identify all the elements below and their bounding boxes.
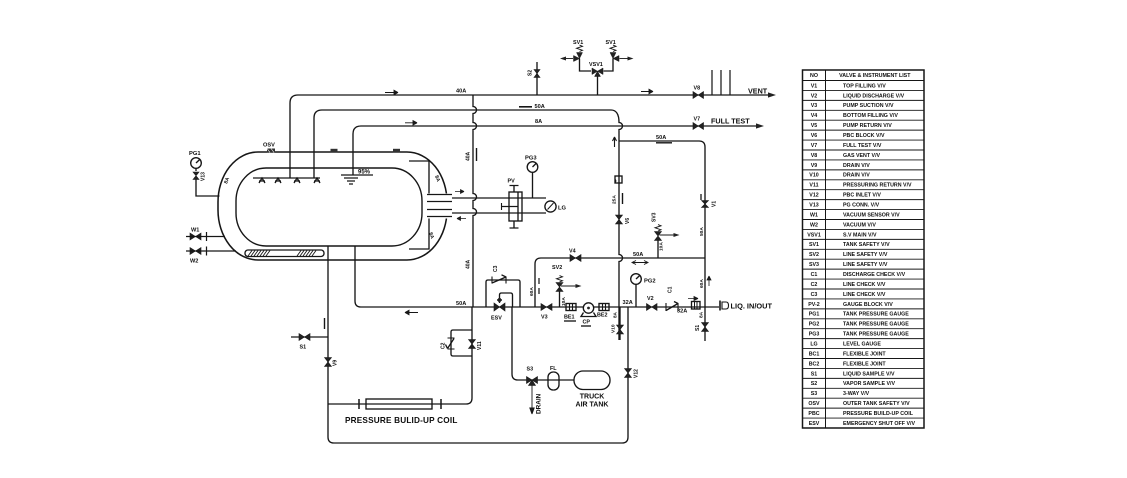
TRUCK AIR TANK label	[576, 394, 609, 409]
svg-text:W2: W2	[810, 222, 818, 228]
svg-text:SV3: SV3	[652, 212, 658, 222]
svg-text:GAUGE BLOCK V/V: GAUGE BLOCK V/V	[843, 302, 893, 308]
flexible joint BC3 hose	[692, 302, 701, 310]
valve V11	[469, 340, 476, 349]
svg-text:VSV1: VSV1	[807, 232, 821, 238]
svg-text:NO: NO	[810, 73, 818, 79]
svg-text:PBC: PBC	[808, 411, 819, 417]
svg-text:V1: V1	[712, 201, 718, 207]
valve V12	[625, 369, 632, 378]
coil tick left	[358, 399, 360, 409]
svg-text:25A: 25A	[612, 195, 618, 204]
svg-text:50A: 50A	[656, 135, 666, 141]
svg-text:OSV: OSV	[808, 401, 820, 407]
svg-text:TANK PRESSURE GAUGE: TANK PRESSURE GAUGE	[843, 332, 909, 338]
svg-text:PUMP RETURN V/V: PUMP RETURN V/V	[843, 123, 892, 129]
svg-text:60A: 60A	[699, 279, 705, 288]
svg-text:S2: S2	[528, 70, 534, 76]
bus2 descender flow tick	[613, 137, 617, 147]
pipe 40A vertical drop	[473, 95, 477, 307]
safety valve SV3	[655, 225, 680, 258]
valve V8	[693, 92, 704, 99]
svg-text:TOP FILLING V/V: TOP FILLING V/V	[843, 83, 886, 89]
svg-text:FULL TEST: FULL TEST	[711, 117, 750, 126]
svg-text:V12: V12	[634, 369, 640, 378]
valve & instrument list table	[803, 70, 925, 428]
main line arrow right	[688, 297, 698, 301]
W1 tick	[206, 232, 208, 241]
3-way valve VSV1	[592, 68, 603, 95]
truck air tank vessel	[574, 371, 610, 390]
valve V1	[702, 201, 709, 208]
outlet upper arrow	[455, 190, 464, 194]
valve V7	[693, 123, 704, 130]
svg-text:C1: C1	[811, 272, 818, 278]
full test arrowhead	[756, 123, 764, 128]
svg-text:PRESSURE BUILD-UP COIL: PRESSURE BUILD-UP COIL	[843, 411, 914, 417]
valve V2	[647, 304, 658, 311]
gauge block PV-2	[502, 186, 523, 229]
svg-text:W2: W2	[190, 259, 198, 265]
svg-text:LIQUID DISCHARGE V/V: LIQUID DISCHARGE V/V	[843, 93, 905, 99]
PG1 connection pipe	[196, 180, 220, 197]
svg-text:EMERGENCY SHUT OFF V/V: EMERGENCY SHUT OFF V/V	[843, 421, 915, 427]
svg-text:DRAIN: DRAIN	[536, 393, 543, 414]
coil tick right	[440, 399, 442, 409]
svg-text:LG: LG	[558, 206, 567, 212]
svg-text:SV3: SV3	[809, 262, 819, 268]
level gauge LG	[545, 201, 556, 212]
bus1 arrow 1	[385, 90, 398, 94]
svg-text:VACUUM SENSOR V/V: VACUUM SENSOR V/V	[843, 212, 900, 218]
pipe bus2 50A	[314, 110, 623, 340]
svg-text:V8: V8	[694, 86, 701, 92]
tank inner vessel	[236, 168, 437, 246]
V1 flow tick	[700, 194, 702, 200]
liq in/out flange	[720, 301, 729, 311]
svg-text:V7: V7	[811, 143, 818, 149]
svg-text:V6: V6	[625, 218, 631, 224]
svg-text:FLEXIBLE JOINT: FLEXIBLE JOINT	[843, 351, 886, 357]
svg-text:8A: 8A	[613, 311, 618, 318]
svg-text:PG1: PG1	[809, 312, 820, 318]
safety valve SV1 right	[604, 45, 634, 71]
svg-text:BC2: BC2	[809, 361, 820, 367]
gauge PG3	[527, 162, 538, 198]
svg-text:8A: 8A	[433, 175, 441, 183]
svg-text:C3: C3	[493, 265, 499, 272]
svg-text:AIR TANK: AIR TANK	[576, 402, 609, 409]
pipe bus3 8A full-test line	[353, 126, 758, 175]
svg-text:PG2: PG2	[644, 279, 656, 285]
svg-text:8A: 8A	[699, 311, 705, 318]
svg-text:VAPOR SAMPLE V/V: VAPOR SAMPLE V/V	[843, 381, 895, 387]
95% liquid level symbol	[341, 175, 373, 184]
svg-text:40A: 40A	[466, 151, 472, 161]
svg-text:PG CONN. V/V: PG CONN. V/V	[843, 203, 880, 209]
svg-text:SV2: SV2	[552, 265, 562, 271]
pipe tank bottom to main line	[355, 246, 719, 307]
svg-text:DRAIN V/V: DRAIN V/V	[843, 173, 870, 179]
svg-text:PG3: PG3	[809, 332, 820, 338]
svg-text:SV1: SV1	[606, 40, 616, 46]
check valve C2 bypass	[446, 330, 473, 356]
svg-text:C1: C1	[668, 286, 674, 293]
safety valve SV1 left	[560, 45, 591, 71]
svg-text:S2: S2	[811, 381, 818, 387]
valve V3	[541, 304, 552, 311]
svg-text:50A: 50A	[699, 227, 705, 236]
svg-text:V7: V7	[694, 117, 701, 123]
svg-text:DRAIN V/V: DRAIN V/V	[843, 163, 870, 169]
svg-text:DISCHARGE CHECK V/V: DISCHARGE CHECK V/V	[843, 272, 906, 278]
pipe S1 sample branch	[291, 336, 328, 338]
svg-text:LINE CHECK V/V: LINE CHECK V/V	[843, 292, 886, 298]
svg-text:50A: 50A	[535, 104, 545, 110]
svg-text:V2: V2	[647, 296, 654, 302]
valve S1 left	[299, 334, 310, 341]
bus3 arrow	[405, 121, 417, 125]
gauge PG1	[191, 158, 202, 171]
valve S2 vapor sample	[534, 62, 540, 95]
W2 tick	[206, 247, 208, 256]
svg-text:OUTER TANK SAFETY V/V: OUTER TANK SAFETY V/V	[843, 401, 910, 407]
tank outlet stub lower	[427, 210, 452, 217]
tank top nozzle 2	[393, 149, 400, 153]
svg-text:V4: V4	[811, 113, 818, 119]
svg-text:PUMP SUCTION V/V: PUMP SUCTION V/V	[843, 103, 894, 109]
svg-text:VACUUM V/V: VACUUM V/V	[843, 222, 876, 228]
valve S1 liquid sample right	[702, 323, 709, 332]
svg-text:SV1: SV1	[573, 40, 583, 46]
svg-text:LINE SAFETY V/V: LINE SAFETY V/V	[843, 262, 888, 268]
svg-text:TANK SAFETY V/V: TANK SAFETY V/V	[843, 242, 890, 248]
svg-text:C2: C2	[441, 342, 447, 349]
pipe liquid phase tap	[452, 212, 546, 214]
safety valve SV2	[556, 276, 582, 307]
svg-text:V2: V2	[811, 93, 818, 99]
svg-text:8A: 8A	[223, 176, 231, 184]
svg-text:V3: V3	[811, 103, 818, 109]
svg-text:PBC INLET V/V: PBC INLET V/V	[843, 193, 881, 199]
valve ESV emergency shut off	[494, 293, 513, 311]
svg-text:VENT: VENT	[748, 87, 768, 96]
svg-text:LG: LG	[810, 342, 817, 348]
svg-text:60A: 60A	[529, 287, 535, 296]
pipe gas phase tap	[452, 197, 546, 199]
svg-text:SV2: SV2	[809, 252, 819, 258]
pump CP	[581, 303, 596, 317]
svg-text:V11: V11	[477, 341, 483, 350]
bus1 arrow 2	[641, 89, 653, 93]
CP underline	[581, 325, 591, 327]
spray header	[253, 178, 320, 183]
vent arrowhead	[768, 92, 776, 97]
svg-text:V10: V10	[809, 173, 818, 179]
svg-text:32A: 32A	[677, 309, 687, 315]
svg-text:50A: 50A	[456, 301, 466, 307]
svg-text:S3: S3	[527, 367, 534, 373]
svg-text:LIQ. IN/OUT: LIQ. IN/OUT	[731, 302, 773, 311]
40A vertical flow tick	[476, 148, 478, 161]
pipe bus4 50A to right column	[619, 141, 705, 341]
svg-text:CP: CP	[583, 320, 591, 326]
valve V6	[616, 215, 623, 224]
tank inner head bracket	[409, 161, 429, 249]
svg-text:C3: C3	[811, 292, 818, 298]
svg-text:S3: S3	[811, 391, 818, 397]
svg-text:V12: V12	[809, 193, 818, 199]
svg-text:ESV: ESV	[491, 316, 502, 322]
pipe truck air tank branch	[512, 307, 574, 380]
svg-text:V9: V9	[333, 360, 339, 366]
gauge PG2	[631, 274, 642, 307]
bus2 arrow	[519, 106, 532, 108]
svg-text:V10: V10	[611, 324, 617, 333]
60A riser arrows	[538, 278, 540, 294]
svg-text:BE2: BE2	[597, 313, 608, 319]
svg-text:3-WAY V/V: 3-WAY V/V	[843, 391, 870, 397]
svg-text:OSV: OSV	[263, 143, 275, 149]
svg-text:VSV1: VSV1	[589, 62, 603, 68]
svg-text:V13: V13	[809, 203, 818, 209]
svg-text:ESV: ESV	[809, 421, 820, 427]
bus4 arrow	[656, 142, 672, 144]
svg-text:V13: V13	[201, 172, 207, 181]
svg-text:LIQUID SAMPLE V/V: LIQUID SAMPLE V/V	[843, 371, 895, 377]
tank top nozzle 1	[331, 149, 338, 153]
svg-text:S.V MAIN V/V: S.V MAIN V/V	[843, 232, 877, 238]
svg-text:PV-2: PV-2	[808, 302, 820, 308]
svg-text:LINE SAFETY V/V: LINE SAFETY V/V	[843, 252, 888, 258]
svg-text:40A: 40A	[466, 259, 472, 269]
svg-text:FULL TEST V/V: FULL TEST V/V	[843, 143, 882, 149]
svg-text:BOTTOM FILLING V/V: BOTTOM FILLING V/V	[843, 113, 898, 119]
svg-text:V9: V9	[811, 163, 818, 169]
flexible joint BC2	[599, 304, 609, 311]
check valve C3 bypass loop	[486, 275, 520, 307]
svg-text:LINE CHECK V/V: LINE CHECK V/V	[843, 282, 886, 288]
pipe tank bottom left drop and bottom loop	[328, 246, 628, 443]
svg-text:PG3: PG3	[525, 156, 537, 162]
pressure build-up coil	[366, 399, 432, 409]
svg-text:PBC BLOCK V/V: PBC BLOCK V/V	[843, 133, 885, 139]
svg-text:W1: W1	[810, 212, 818, 218]
filter FL	[548, 372, 559, 390]
svg-text:32A: 32A	[623, 300, 633, 306]
branch double arrow	[632, 261, 648, 265]
25A flow tick	[622, 193, 624, 204]
drop flow tick	[324, 318, 326, 329]
svg-text:W1: W1	[191, 228, 199, 234]
3-way valve S3	[527, 377, 538, 386]
svg-text:FL: FL	[550, 366, 557, 372]
right column arrow	[707, 276, 711, 286]
svg-text:50A: 50A	[633, 252, 643, 258]
svg-text:S1: S1	[695, 325, 701, 331]
svg-text:PG1: PG1	[189, 151, 201, 157]
svg-text:S1: S1	[300, 345, 307, 351]
svg-text:TANK PRESSURE GAUGE: TANK PRESSURE GAUGE	[843, 312, 909, 318]
tank outlet stub upper	[427, 195, 452, 202]
svg-text:C2: C2	[811, 282, 818, 288]
valve V10 drain stub	[617, 307, 624, 342]
svg-text:V3: V3	[541, 315, 548, 321]
valve V4	[570, 255, 581, 262]
pipe PBC coil line	[328, 307, 472, 404]
W1 pipe	[186, 236, 225, 238]
svg-text:FLEXIBLE JOINT: FLEXIBLE JOINT	[843, 361, 886, 367]
svg-text:V11: V11	[809, 183, 818, 189]
svg-text:TRUCK: TRUCK	[580, 394, 605, 401]
svg-text:V1: V1	[811, 83, 818, 89]
svg-text:SV1: SV1	[809, 242, 819, 248]
svg-text:V4: V4	[569, 249, 576, 255]
flexible joint BC1	[566, 304, 576, 311]
S3 drain pipe	[530, 386, 534, 415]
svg-text:PRESSURE BULID-UP COIL: PRESSURE BULID-UP COIL	[345, 416, 458, 425]
svg-text:TANK PRESSURE GAUGE: TANK PRESSURE GAUGE	[843, 322, 909, 328]
pipe V4 branch 50A	[535, 258, 705, 307]
svg-text:LEVEL GAUGE: LEVEL GAUGE	[843, 342, 881, 348]
check valve C1	[666, 302, 678, 312]
valve W1	[190, 233, 201, 240]
valve W2	[190, 248, 201, 255]
svg-text:PRESSURING RETURN V/V: PRESSURING RETURN V/V	[843, 183, 912, 189]
svg-text:BE1: BE1	[564, 315, 575, 321]
outlet lower arrow	[457, 217, 466, 221]
valve V13	[193, 172, 199, 180]
valve V9	[325, 358, 332, 367]
pipe bus1 40A vent line	[290, 95, 770, 178]
svg-text:V6: V6	[811, 133, 818, 139]
svg-text:GAS VENT V/V: GAS VENT V/V	[843, 153, 881, 159]
svg-text:PV: PV	[508, 179, 516, 185]
OSV outer tank safety valve	[267, 149, 275, 153]
svg-text:8A: 8A	[427, 232, 435, 240]
main line left arrow	[405, 310, 418, 314]
BC1 underline	[564, 320, 576, 322]
svg-text:V8: V8	[811, 153, 818, 159]
svg-text:S1: S1	[811, 371, 818, 377]
svg-text:V5: V5	[811, 123, 818, 129]
svg-text:40A: 40A	[456, 89, 466, 95]
vent stack	[712, 70, 730, 95]
in-tank vaporizer coil	[245, 250, 324, 257]
svg-text:10A: 10A	[659, 242, 665, 251]
svg-text:BC1: BC1	[809, 351, 820, 357]
svg-text:PG2: PG2	[809, 322, 820, 328]
tank outer shell	[218, 152, 453, 260]
svg-text:8A: 8A	[535, 119, 542, 125]
W2 pipe	[186, 250, 236, 252]
25A line component box	[615, 176, 622, 183]
svg-text:95%: 95%	[358, 170, 371, 176]
svg-text:VALVE & INSTRUMENT LIST: VALVE & INSTRUMENT LIST	[839, 73, 911, 79]
